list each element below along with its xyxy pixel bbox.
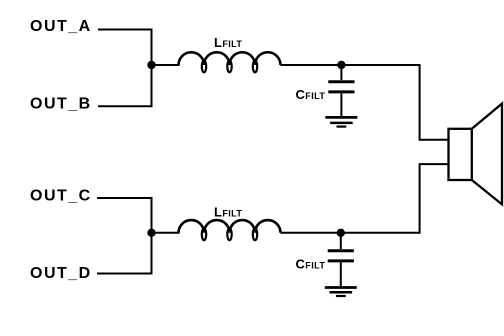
svg-text:OUT_B: OUT_B bbox=[30, 96, 92, 113]
svg-text:LFILT: LFILT bbox=[214, 35, 242, 50]
svg-text:OUT_D: OUT_D bbox=[30, 265, 92, 282]
svg-text:LFILT: LFILT bbox=[214, 204, 242, 219]
svg-text:OUT_A: OUT_A bbox=[30, 18, 92, 35]
svg-text:CFILT: CFILT bbox=[296, 87, 326, 102]
svg-text:OUT_C: OUT_C bbox=[30, 188, 92, 205]
svg-text:CFILT: CFILT bbox=[296, 256, 326, 271]
